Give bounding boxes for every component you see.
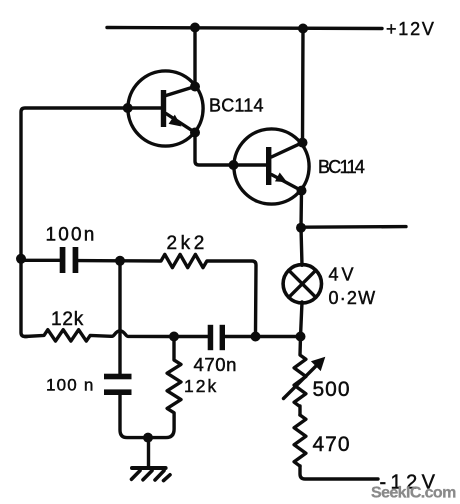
wire Q2 emitter down to lamp node xyxy=(299,191,303,228)
transistor Q1 BC114 xyxy=(128,71,203,146)
capacitor C2 100n plates xyxy=(104,374,132,395)
svg-text:100n: 100n xyxy=(46,225,97,246)
junction emitter/stub node xyxy=(296,223,306,233)
svg-text:BC114: BC114 xyxy=(209,96,264,116)
junction lamp node xyxy=(296,332,306,342)
wire Q1 emitter to Q2 base xyxy=(195,133,266,166)
stub wire right from emitter node xyxy=(301,225,406,229)
junction ground node xyxy=(143,433,153,443)
wire rail to Q1 collector xyxy=(193,28,196,87)
capacitor C1 100n plates xyxy=(60,247,79,273)
wire hop over node B vertical xyxy=(111,331,169,337)
svg-text:470: 470 xyxy=(313,433,351,456)
wire junction to lamp node xyxy=(256,335,301,338)
wire 470n to junction xyxy=(225,335,256,338)
+12V power rail xyxy=(107,28,382,29)
svg-text:2k2: 2k2 xyxy=(167,233,208,254)
wire node B down to C2 xyxy=(118,261,121,374)
junction Q2 collector xyxy=(298,138,308,148)
svg-text:4V: 4V xyxy=(329,265,357,285)
junction R3 top xyxy=(169,332,179,342)
svg-text:0·2W: 0·2W xyxy=(329,288,377,308)
junction Q1 emitter xyxy=(190,128,200,138)
lamp 4V 0.2W xyxy=(283,265,321,303)
junction Q1 base xyxy=(123,103,133,113)
wire junction to 470n xyxy=(174,335,208,338)
resistor R2 12k xyxy=(25,330,111,341)
wire C2 bottom to ground node xyxy=(120,395,148,438)
svg-text:470n: 470n xyxy=(194,354,238,375)
resistor R3 12k vertical xyxy=(151,337,181,438)
node A on left rail xyxy=(16,254,26,264)
wire to -12V rail xyxy=(300,466,378,479)
svg-text:100 n: 100 n xyxy=(46,376,95,395)
svg-text:SeekIC.com: SeekIC.com xyxy=(371,485,456,502)
potentiometer 500 xyxy=(284,337,326,416)
transistor Q2 BC114 xyxy=(234,129,309,204)
svg-text:BC114: BC114 xyxy=(318,157,365,177)
resistor R4 470 xyxy=(294,415,306,466)
junction rail/Q2 xyxy=(298,24,308,34)
ground xyxy=(132,438,171,481)
junction 2k2 drop xyxy=(251,332,261,342)
junction Q2 base xyxy=(229,160,239,170)
wire node to lamp top xyxy=(301,228,302,266)
junction Q2 emitter xyxy=(297,186,307,196)
junction rail/Q1 xyxy=(190,23,200,33)
svg-text:+12V: +12V xyxy=(386,19,436,39)
capacitor C1 100n wires xyxy=(21,259,60,262)
svg-text:500: 500 xyxy=(313,378,351,401)
svg-text:12k: 12k xyxy=(51,309,84,330)
wire Q1 base to left rail xyxy=(21,108,161,337)
svg-text:12k: 12k xyxy=(184,376,218,396)
wire lamp bottom to node xyxy=(301,302,303,337)
capacitor C3 470n plates xyxy=(208,325,225,350)
resistor R1 2k2 xyxy=(120,254,256,336)
wire rail to Q2 collector xyxy=(301,29,305,143)
node B junction xyxy=(115,256,125,266)
junction Q1 collector xyxy=(190,82,200,92)
